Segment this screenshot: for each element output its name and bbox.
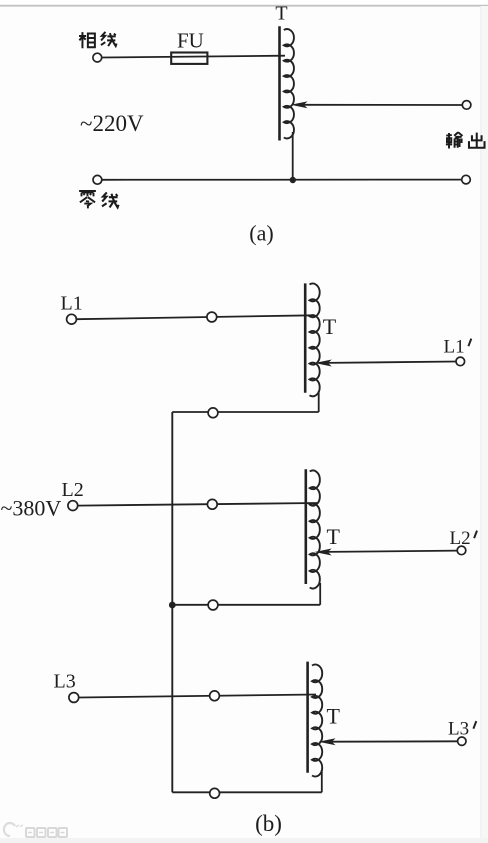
svg-text:L3: L3 (54, 671, 76, 693)
svg-text:L3: L3 (448, 719, 469, 740)
svg-text:L2: L2 (450, 528, 471, 549)
svg-text:~220V: ~220V (80, 111, 144, 136)
svg-text:T: T (327, 524, 341, 549)
svg-text:FU: FU (177, 29, 204, 53)
svg-text:T: T (275, 3, 287, 25)
svg-text:T: T (323, 314, 337, 339)
svg-text:(a): (a) (249, 221, 273, 246)
svg-text:L2: L2 (62, 479, 84, 501)
svg-text:L1: L1 (61, 293, 83, 315)
svg-text:(b): (b) (255, 811, 282, 836)
svg-text:~380V: ~380V (1, 496, 62, 521)
svg-text:L1: L1 (444, 337, 465, 358)
svg-text:T: T (327, 704, 341, 729)
